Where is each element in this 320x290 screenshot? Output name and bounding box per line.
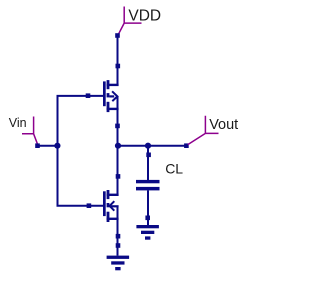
svg-text:VDD: VDD	[128, 7, 161, 24]
junction square Q2 source pin end	[116, 234, 121, 239]
transistor Q2 NMOS channel segment middle	[107, 203, 110, 207]
wire output node down to capacitor CL	[147, 146, 149, 181]
junction square CL bottom pin end	[145, 216, 150, 221]
transistor Q1 PMOS gate bar	[103, 81, 106, 106]
transistor Q1 PMOS channel segment top	[107, 80, 110, 89]
transistor Q1 PMOS channel segment middle	[107, 93, 110, 97]
transistor Q2 NMOS channel segment bottom	[107, 212, 110, 222]
node Vout terminal square	[184, 143, 189, 148]
junction square CL top pin end	[146, 153, 151, 158]
wire output node down to Q2 drain	[117, 146, 119, 195]
junction square Q1 source pin end	[115, 124, 120, 129]
transistor Q2 NMOS bulk stub	[109, 205, 118, 207]
ground symbol under Q2 bar1	[107, 256, 130, 259]
wire gate rail: Q1 gate to Q2 gate	[58, 96, 104, 206]
node VDD terminal square	[115, 33, 120, 38]
power flag VDD (pointer)	[118, 7, 141, 35]
ground symbol under CL bar2	[141, 231, 154, 234]
svg-text:Vout: Vout	[209, 117, 238, 133]
output flag Vout (pointer)	[188, 116, 219, 145]
wire VDD terminal to Q1 drain	[117, 36, 119, 87]
junction dot gate rail / Vin	[54, 143, 60, 149]
transistor Q2 NMOS gate bar	[103, 191, 106, 216]
transistor Q2 NMOS source stub	[107, 218, 119, 220]
wire Q1 source / bulk down to output node	[117, 96, 119, 145]
wire output node row to Vout terminal	[118, 145, 187, 147]
junction dot output node at rail	[115, 143, 121, 149]
transistor Q1 PMOS drain stub	[107, 84, 119, 86]
capacitor CL top plate	[136, 180, 160, 183]
transistor Q2 NMOS drain stub	[107, 194, 119, 196]
ground symbol under CL bar3	[145, 236, 150, 239]
junction square wire joint above ground	[116, 243, 121, 248]
ground symbol under Q2 bar2	[111, 261, 124, 264]
svg-text:Vin: Vin	[9, 116, 27, 130]
wire Q2 bulk/source down to ground	[117, 206, 119, 255]
node Vin terminal square	[35, 143, 40, 148]
capacitor CL bottom plate	[136, 187, 160, 191]
junction square Q2 drain pin end	[116, 174, 121, 179]
svg-text:CL: CL	[165, 160, 183, 176]
ground symbol under CL bar1	[136, 225, 159, 228]
transistor Q1 PMOS channel segment bottom	[107, 102, 110, 112]
junction dot output node at CL tap	[145, 143, 151, 149]
transistor Q1 PMOS source stub	[107, 108, 119, 110]
transistor Q1 PMOS bulk stub	[109, 95, 114, 97]
ground symbol under Q2 bar3	[115, 267, 120, 270]
transistor Q1 PMOS bulk arrow (points right)	[112, 91, 117, 101]
wire capacitor CL bottom to ground	[147, 190, 149, 225]
wire Vin terminal to gate rail	[38, 145, 58, 147]
junction square Q1 gate pin end	[86, 93, 91, 98]
junction square Q2 gate pin end	[87, 203, 92, 208]
junction square Q1 drain pin end	[116, 64, 121, 69]
transistor Q2 NMOS bulk arrow (points left)	[110, 201, 115, 211]
input flag Vin (pointer)	[22, 117, 38, 145]
transistor Q2 NMOS channel segment top	[107, 190, 110, 199]
